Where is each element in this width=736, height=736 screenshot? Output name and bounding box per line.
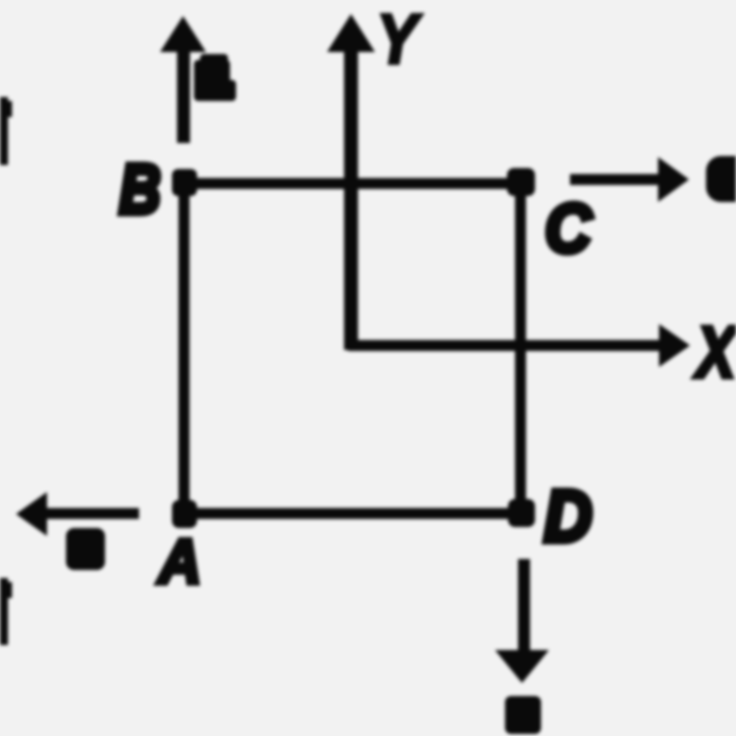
force label blob near D xyxy=(505,696,541,734)
left margin artifact (top) xyxy=(0,97,12,165)
corner dot B xyxy=(172,169,197,196)
svg-text:C: C xyxy=(545,191,592,268)
corner dot C xyxy=(507,168,535,196)
X axis xyxy=(348,324,690,367)
force arrow at A (left) xyxy=(16,492,139,536)
corner dot D xyxy=(508,499,535,527)
svg-text:B: B xyxy=(119,150,160,229)
force label blob near B xyxy=(194,54,236,101)
force arrow at C (right) xyxy=(570,157,689,202)
force label blob near C (cut off at edge) xyxy=(706,156,736,202)
corner dot A xyxy=(172,500,197,528)
force label blob near A xyxy=(66,528,105,570)
square ABCD outline xyxy=(184,184,521,514)
force arrow at D (down) xyxy=(495,559,549,683)
svg-text:Y: Y xyxy=(377,0,422,78)
svg-text:A: A xyxy=(157,526,202,596)
left margin artifact (bottom) xyxy=(0,578,12,645)
force arrow at B (up) xyxy=(160,16,206,143)
svg-text:X: X xyxy=(694,312,736,393)
svg-text:D: D xyxy=(544,475,592,556)
Y axis xyxy=(327,14,375,350)
